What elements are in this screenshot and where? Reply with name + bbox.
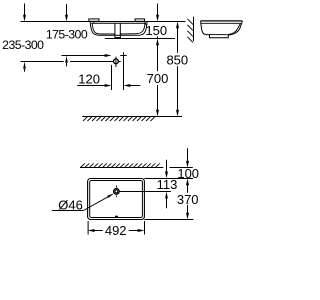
svg-text:700: 700 <box>147 71 169 86</box>
svg-text:370: 370 <box>177 192 199 207</box>
svg-text:175-300: 175-300 <box>46 27 88 41</box>
svg-text:235-300: 235-300 <box>2 38 44 52</box>
svg-text:150: 150 <box>145 23 167 38</box>
svg-text:113: 113 <box>157 177 178 192</box>
svg-text:120: 120 <box>78 71 100 86</box>
svg-text:492: 492 <box>105 223 127 238</box>
svg-text:850: 850 <box>166 52 188 67</box>
